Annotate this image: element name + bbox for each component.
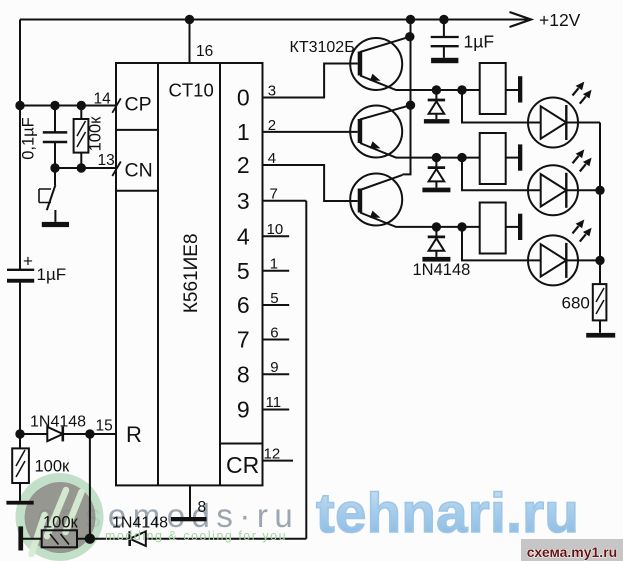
svg-text:КТ3102Б: КТ3102Б — [290, 39, 355, 56]
svg-text:4: 4 — [237, 224, 250, 250]
svg-text:8: 8 — [237, 362, 250, 388]
svg-text:R: R — [126, 422, 142, 447]
svg-text:1: 1 — [270, 256, 278, 273]
svg-text:1N4148: 1N4148 — [30, 414, 86, 431]
svg-text:100к: 100к — [35, 458, 71, 476]
svg-text:5: 5 — [270, 290, 278, 307]
svg-text:3: 3 — [237, 188, 250, 214]
svg-text:9: 9 — [237, 397, 250, 423]
svg-text:CN: CN — [125, 160, 153, 182]
svg-text:+: + — [23, 252, 33, 271]
svg-text:1µF: 1µF — [37, 265, 67, 284]
svg-text:10: 10 — [267, 221, 284, 238]
svg-text:+12V: +12V — [539, 10, 581, 30]
svg-text:16: 16 — [196, 43, 213, 60]
svg-text:100к: 100к — [87, 116, 105, 152]
svg-text:4: 4 — [268, 150, 276, 167]
svg-text:0: 0 — [237, 85, 250, 111]
svg-text:6: 6 — [237, 292, 250, 318]
svg-text:1N4148: 1N4148 — [413, 261, 471, 279]
svg-text:2: 2 — [237, 152, 250, 178]
svg-text:11: 11 — [266, 394, 282, 411]
svg-text:13: 13 — [98, 152, 115, 169]
svg-text:100к: 100к — [43, 514, 79, 532]
svg-text:6: 6 — [270, 324, 278, 341]
svg-text:15: 15 — [96, 418, 113, 435]
svg-text:8: 8 — [198, 499, 207, 516]
svg-text:7: 7 — [270, 186, 278, 203]
svg-text:CR: CR — [226, 452, 259, 478]
svg-text:схема.my1.ru: схема.my1.ru — [527, 544, 617, 560]
svg-text:5: 5 — [237, 258, 250, 284]
svg-text:680: 680 — [562, 294, 590, 313]
svg-text:9: 9 — [270, 359, 278, 376]
svg-text:3: 3 — [268, 83, 276, 100]
svg-text:1: 1 — [237, 119, 250, 145]
svg-text:1µF: 1µF — [464, 32, 495, 52]
svg-text:CP: CP — [125, 94, 152, 116]
svg-text:7: 7 — [237, 327, 250, 353]
svg-text:0,1µF: 0,1µF — [20, 117, 38, 160]
svg-text:К561ИЕ8: К561ИЕ8 — [181, 233, 202, 313]
svg-text:12: 12 — [264, 446, 281, 463]
svg-text:CT10: CT10 — [169, 80, 214, 101]
svg-text:14: 14 — [94, 91, 112, 108]
svg-text:tehnari.ru: tehnari.ru — [316, 481, 579, 544]
svg-text:modding & cooling for you: modding & cooling for you — [105, 529, 287, 543]
svg-text:2: 2 — [268, 117, 276, 134]
